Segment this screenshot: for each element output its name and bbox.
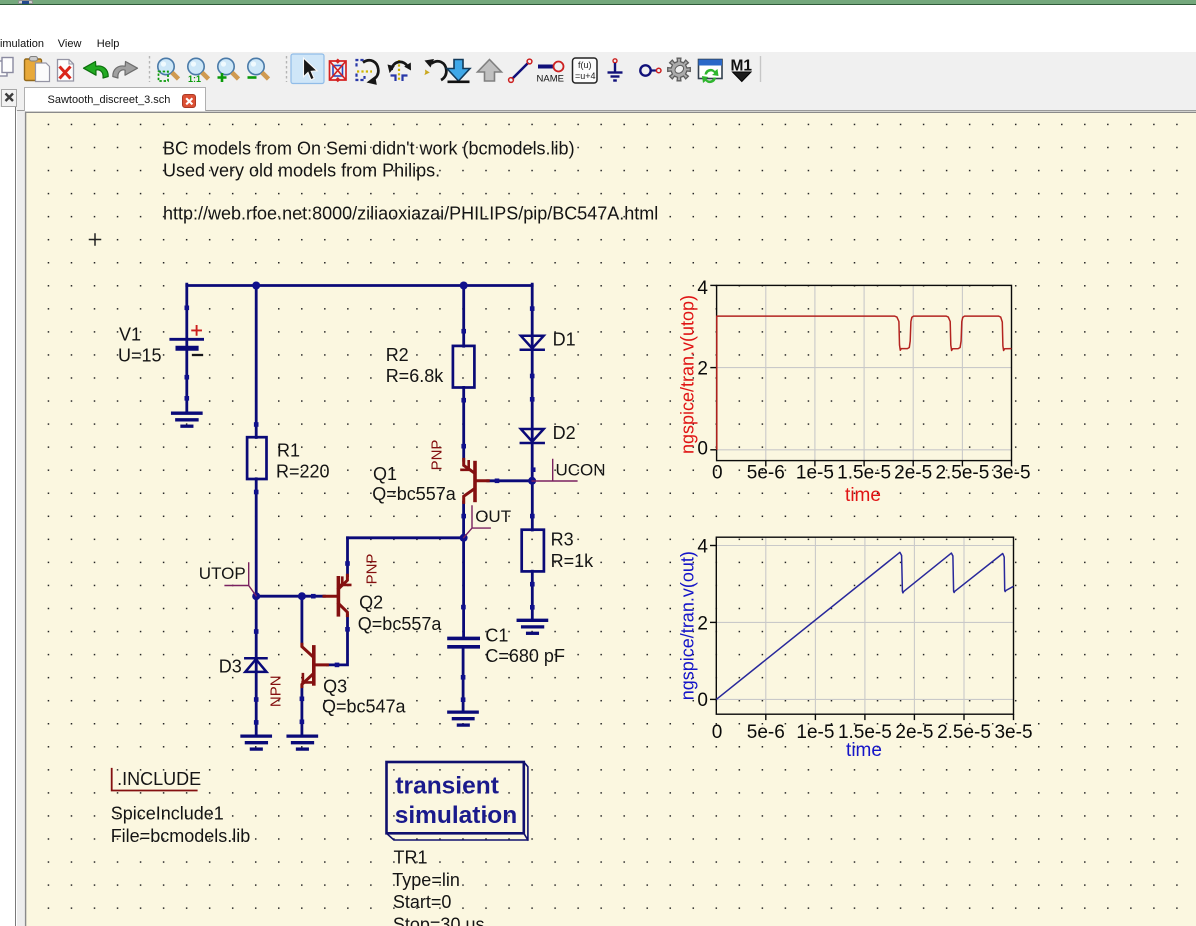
svg-text:0: 0	[697, 690, 708, 711]
transient simulation text	[395, 773, 518, 830]
transient simulation box	[387, 762, 528, 840]
transistor Q1 pnp	[462, 459, 489, 502]
title bar green strip	[0, 0, 1196, 5]
diagram 2 axis ticks	[710, 546, 1014, 721]
texts	[163, 138, 658, 223]
toolbar icon: deactivate	[330, 59, 347, 83]
svg-text:ngspice/tran.v(utop): ngspice/tran.v(utop)	[678, 295, 698, 454]
svg-text:R1: R1	[277, 441, 300, 461]
curve ngspice/tran.v(utop)	[717, 316, 1012, 450]
resistor R3	[522, 530, 544, 572]
diagram 1 x tick labels	[712, 462, 1031, 483]
svg-text:1e-5: 1e-5	[796, 722, 834, 743]
toolbar icon: delete page	[58, 60, 74, 82]
svg-text:V1: V1	[119, 325, 141, 345]
tab bar	[0, 86, 1196, 111]
toolbar icon: paste	[25, 57, 50, 82]
toolbar icon: simulate	[699, 60, 723, 84]
tab close red button	[182, 94, 197, 109]
wire R3 to ground	[531, 571, 534, 619]
wire node to Q3 collector	[300, 596, 303, 646]
wire top rail	[187, 284, 532, 287]
capacitor C1	[449, 638, 478, 646]
svg-text:1.5e-5: 1.5e-5	[837, 462, 891, 483]
svg-text:2e-5: 2e-5	[894, 462, 932, 483]
node junction UTOP	[252, 592, 260, 600]
toolbar icon: pop up	[478, 60, 502, 82]
svg-text:1:1: 1:1	[188, 74, 201, 84]
svg-text:C1: C1	[485, 626, 508, 646]
pin squares	[185, 306, 536, 725]
svg-text:Stop=30 us: Stop=30 us	[393, 915, 485, 926]
ground below Q3 emitter	[288, 736, 316, 749]
node label OUT lines	[464, 506, 491, 538]
toolbar icon: insert wire	[509, 59, 532, 82]
svg-text:UCON: UCON	[556, 461, 606, 480]
svg-text:OUT: OUT	[475, 507, 511, 526]
resistor R2	[453, 346, 475, 388]
toolbar	[0, 52, 1196, 86]
diode D3	[245, 658, 266, 672]
dock close button	[1, 89, 18, 107]
svg-text:R2: R2	[386, 345, 409, 365]
svg-text:Q3: Q3	[323, 677, 347, 697]
toolbar icon: rotate small	[424, 59, 446, 80]
diagram 2 y tick labels	[697, 537, 708, 712]
node junction top-right	[460, 282, 468, 290]
svg-text:SpiceInclude1: SpiceInclude1	[111, 804, 224, 824]
diagram 1 frame	[717, 285, 1012, 460]
svg-text:NAME: NAME	[537, 74, 564, 85]
svg-text:0: 0	[712, 722, 723, 743]
ground below D3	[242, 736, 270, 749]
svg-text:4: 4	[697, 278, 708, 299]
wire R1 top	[255, 284, 258, 437]
transistor Q3 npn	[302, 644, 328, 686]
toolbar icon: marker M1	[731, 58, 753, 82]
wire D1 top	[531, 284, 534, 481]
svg-text:ngspice/tran.v(out): ngspice/tran.v(out)	[678, 551, 698, 700]
svg-text:3e-5: 3e-5	[994, 722, 1032, 743]
voltage source V1 battery	[171, 339, 203, 348]
node junction OUT	[460, 534, 468, 542]
wire Q3 emitter to ground	[300, 686, 303, 735]
svg-text:NPN: NPN	[267, 675, 284, 707]
separator	[149, 56, 151, 82]
toolbar button: select (active)	[291, 54, 324, 84]
svg-text:time: time	[845, 485, 881, 506]
svg-text:BC models from On Semi didn't: BC models from On Semi didn't work (bcmo…	[163, 138, 575, 158]
toolbar icon: settings gear	[668, 58, 691, 81]
left dock panel	[0, 107, 16, 926]
diode D1	[521, 336, 544, 350]
ground below C1	[449, 712, 477, 725]
svg-text:D2: D2	[553, 423, 576, 443]
wire R2 to Q1 emitter	[462, 387, 465, 460]
origin cross	[90, 234, 101, 245]
svg-text:time: time	[846, 740, 882, 761]
diagram 2 frame	[716, 537, 1013, 714]
wire Q2 collector to Q3 base	[327, 615, 347, 665]
svg-text:TR1: TR1	[394, 848, 428, 868]
toolbar icon: mirror about x	[388, 60, 411, 82]
toolbar icon: zoom 1:1	[188, 58, 209, 84]
spice include marker	[112, 769, 197, 791]
V1 plus mark	[192, 326, 201, 335]
svg-text:Used very old models from Phil: Used very old models from Philips.	[163, 160, 440, 180]
svg-text:PNP: PNP	[364, 554, 381, 585]
V1 minus mark	[193, 354, 202, 356]
wire Q2 emitter up	[346, 538, 349, 576]
toolbar icon: zoom in	[218, 58, 239, 82]
svg-text:4: 4	[697, 537, 708, 558]
svg-text:0: 0	[697, 439, 708, 460]
svg-text:R=220: R=220	[276, 462, 330, 482]
svg-text:PNP: PNP	[429, 440, 446, 471]
svg-text:Q1: Q1	[373, 464, 397, 484]
ground below V1	[173, 413, 201, 426]
svg-text:3e-5: 3e-5	[992, 462, 1030, 483]
wire R2 top	[462, 284, 465, 346]
diagram 1 axis ticks	[710, 285, 1011, 466]
toolbar icon: zoom out	[248, 58, 269, 79]
svg-text:Start=0: Start=0	[393, 892, 452, 912]
node junction UCON	[528, 477, 536, 485]
svg-text:2.5e-5: 2.5e-5	[935, 462, 989, 483]
svg-text:f(u): f(u)	[578, 60, 592, 70]
resistor R1	[247, 437, 266, 479]
svg-text:R=1k: R=1k	[551, 551, 595, 571]
svg-text:2: 2	[697, 613, 708, 634]
diode D2	[521, 429, 544, 443]
svg-text:2: 2	[697, 358, 708, 379]
svg-text:D1: D1	[553, 330, 576, 350]
svg-text:1e-5: 1e-5	[796, 462, 834, 483]
svg-text:.INCLUDE: .INCLUDE	[117, 769, 201, 789]
diagram 1 y tick labels	[697, 278, 708, 460]
svg-text:Q=bc557a: Q=bc557a	[372, 484, 457, 504]
svg-text:R=6.8k: R=6.8k	[386, 366, 445, 386]
svg-text:Type=lin: Type=lin	[392, 870, 460, 890]
node junction Q3 drop	[298, 592, 306, 600]
active tab	[24, 87, 206, 111]
diagram 2 x tick labels	[712, 722, 1033, 743]
toolbar icon: push down	[447, 60, 470, 82]
wire OUT horizontal	[348, 536, 464, 539]
node label UTOP lines	[225, 563, 256, 596]
wire C1 to ground	[462, 648, 465, 711]
toolbar icon: copy (cut off at window edge)	[0, 58, 13, 77]
svg-text:Q2: Q2	[359, 593, 383, 613]
transistor Q2 pnp	[324, 575, 350, 615]
svg-text:5e-6: 5e-6	[747, 462, 785, 483]
svg-text:U=15: U=15	[118, 346, 162, 366]
svg-text:2e-5: 2e-5	[895, 722, 933, 743]
svg-text:Q=bc547a: Q=bc547a	[322, 697, 407, 717]
svg-text:File=bcmodels.lib: File=bcmodels.lib	[111, 826, 251, 846]
svg-text:C=680 pF: C=680 pF	[485, 646, 565, 666]
toolbar icon: wire label NAME	[537, 62, 564, 85]
svg-text:5e-6: 5e-6	[747, 722, 785, 743]
svg-text:simulation: simulation	[395, 802, 518, 829]
curve ngspice/tran.v(out) sawtooth	[716, 552, 1013, 699]
svg-text:D3: D3	[219, 657, 242, 677]
toolbar icon: equation	[573, 58, 598, 83]
toolbar icon: zoom fit	[158, 58, 179, 81]
svg-text:=u+4: =u+4	[575, 71, 596, 81]
svg-text:R3: R3	[551, 530, 574, 550]
toolbar icon: rotate ccw	[357, 60, 379, 85]
wire R1 bottom to UTOP node and D3	[255, 479, 258, 735]
svg-text:0: 0	[712, 462, 723, 483]
svg-text:Q=bc557a: Q=bc557a	[358, 614, 443, 634]
svg-text:UTOP: UTOP	[199, 564, 246, 583]
menu bar	[0, 38, 1196, 52]
toolbar icon: redo gray arrow	[113, 62, 138, 79]
svg-text:transient: transient	[395, 773, 498, 800]
svg-text:http://web.rfoe.net:8000/zilia: http://web.rfoe.net:8000/ziliaoxiazai/PH…	[163, 203, 658, 223]
separator	[760, 56, 762, 82]
wire UCON to R3	[531, 481, 534, 530]
node junction top-left	[252, 282, 260, 290]
toolbar icon: undo green arrow	[84, 62, 109, 79]
svg-text:2.5e-5: 2.5e-5	[937, 722, 991, 743]
wire Q1 collector to OUT to C1	[462, 502, 465, 637]
node label UCON lines	[532, 460, 577, 482]
wire Q1 base to UCON node	[488, 479, 532, 482]
separator	[286, 56, 288, 82]
toolbar icon: ground	[608, 59, 623, 81]
diagram 2 grid	[716, 537, 1013, 714]
wire UTOP horizontal to Q2 base	[256, 595, 324, 598]
diagram 1 grid	[717, 285, 1012, 460]
wire V1 top	[185, 284, 188, 412]
toolbar icon: port	[640, 65, 661, 75]
ground below R3	[518, 620, 546, 633]
